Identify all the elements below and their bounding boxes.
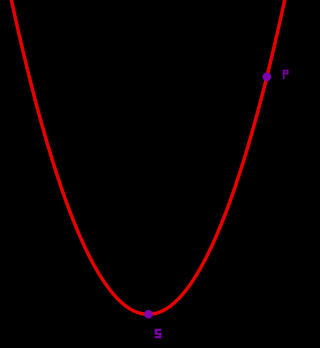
label S — [155, 329, 162, 338]
parabola curve (red) — [8, 0, 288, 314]
point P — [263, 73, 272, 82]
point S — [144, 310, 153, 319]
label P — [283, 70, 289, 79]
